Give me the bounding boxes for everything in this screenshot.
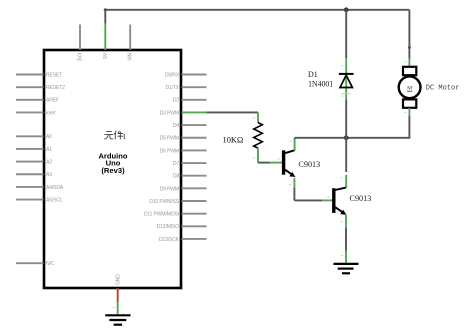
svg-text:D1/TX: D1/TX bbox=[165, 85, 179, 91]
svg-text:D7: D7 bbox=[173, 161, 179, 167]
svg-text:A4/SDA: A4/SDA bbox=[46, 185, 64, 191]
svg-text:D3 PWM: D3 PWM bbox=[160, 110, 179, 116]
svg-text:C9013: C9013 bbox=[298, 160, 320, 169]
svg-text:RESET: RESET bbox=[46, 72, 62, 78]
svg-text:DC Motor: DC Motor bbox=[426, 85, 460, 93]
svg-text:3V3: 3V3 bbox=[78, 53, 84, 62]
svg-text:D9 PWM: D9 PWM bbox=[160, 186, 179, 192]
svg-text:A2: A2 bbox=[46, 160, 52, 166]
svg-text:VIN: VIN bbox=[128, 53, 134, 61]
svg-text:A0: A0 bbox=[46, 134, 52, 140]
svg-text:D8: D8 bbox=[173, 174, 179, 180]
svg-text:D2: D2 bbox=[173, 98, 179, 104]
svg-text:A1: A1 bbox=[46, 147, 52, 153]
svg-text:D1: D1 bbox=[308, 70, 318, 79]
svg-text:D12/MISO: D12/MISO bbox=[157, 224, 180, 230]
svg-text:D5 PWM: D5 PWM bbox=[160, 136, 179, 142]
svg-text:10KΩ: 10KΩ bbox=[223, 136, 244, 145]
svg-text:GND: GND bbox=[116, 274, 122, 285]
svg-text:RESET2: RESET2 bbox=[46, 85, 65, 91]
svg-text:C9013: C9013 bbox=[350, 194, 372, 203]
svg-text:A3: A3 bbox=[46, 172, 52, 178]
svg-text:N/C: N/C bbox=[46, 261, 55, 267]
svg-text:D13/SCK: D13/SCK bbox=[159, 237, 180, 243]
svg-text:1N4001: 1N4001 bbox=[308, 80, 333, 89]
svg-text:(Rev3): (Rev3) bbox=[101, 166, 125, 175]
svg-text:D0/RX: D0/RX bbox=[165, 72, 180, 78]
svg-text:D6 PWM: D6 PWM bbox=[160, 148, 179, 154]
svg-text:D4: D4 bbox=[173, 123, 179, 129]
svg-text:D10 PWM/SS: D10 PWM/SS bbox=[149, 199, 179, 205]
svg-text:AREF: AREF bbox=[46, 98, 59, 104]
svg-text:ioref: ioref bbox=[46, 110, 56, 116]
svg-text:M: M bbox=[407, 86, 412, 92]
svg-text:1: 1 bbox=[122, 132, 126, 141]
svg-text:A5/SCL: A5/SCL bbox=[46, 197, 63, 203]
svg-text:5V: 5V bbox=[103, 52, 109, 59]
svg-text:D11 PWM/MOSI: D11 PWM/MOSI bbox=[144, 212, 179, 218]
